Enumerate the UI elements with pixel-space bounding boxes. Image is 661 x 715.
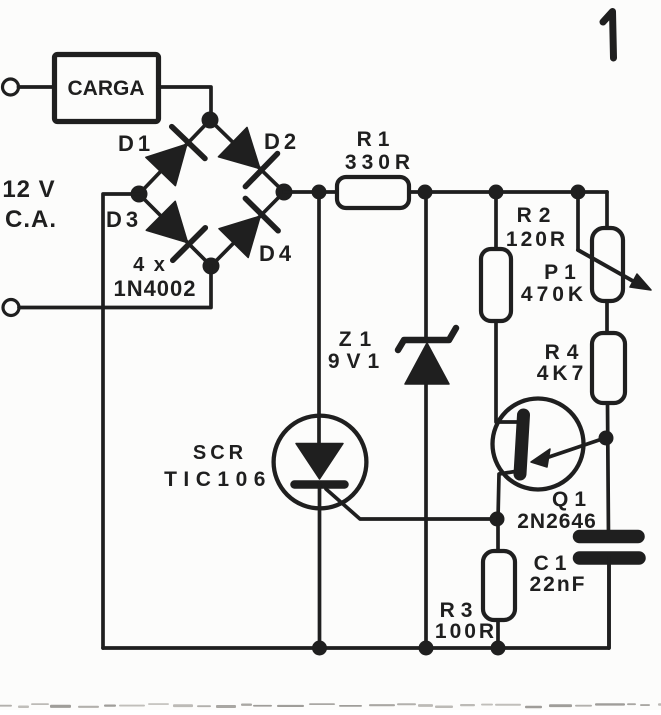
label R3 [440, 599, 479, 622]
label R1 [357, 128, 396, 151]
wire zener column top [424, 192, 428, 340]
label D4 [259, 241, 295, 266]
wire SCR anode [317, 192, 321, 444]
wire bridge edge left-top [139, 120, 210, 194]
node bridge left [131, 186, 148, 203]
diode D1 [146, 127, 205, 186]
svg-text:P1: P1 [544, 261, 582, 284]
resistor R3 body [483, 551, 515, 620]
wire right rail top corner [605, 192, 609, 228]
label Q1 [552, 488, 592, 511]
potentiometer P1 body [592, 228, 623, 301]
label C.A. [5, 206, 57, 233]
label TIC106 [164, 468, 272, 491]
label 9V1 [328, 350, 386, 373]
svg-text:TIC106: TIC106 [164, 468, 272, 491]
svg-text:4K7: 4K7 [537, 362, 588, 385]
label 120R [506, 228, 568, 251]
svg-text:D1: D1 [118, 131, 154, 156]
node bridge bottom [203, 258, 220, 275]
wire terminal2 to bridge bottom [19, 266, 211, 308]
svg-text:CARGA: CARGA [68, 77, 145, 100]
P1 arrowhead [630, 274, 651, 290]
load box CARGA [55, 55, 159, 122]
capacitor C1 top plate [580, 530, 639, 544]
capacitor C1 bottom plate [580, 551, 640, 565]
svg-text:120R: 120R [506, 228, 568, 251]
svg-text:C.A.: C.A. [5, 206, 57, 233]
label P1 [544, 261, 582, 284]
zener Z1 bar [398, 328, 456, 350]
svg-text:R1: R1 [357, 128, 396, 151]
wire CARGA to bridge top node [158, 87, 211, 120]
diode D2 [218, 127, 277, 186]
wire P1 to R4 [605, 301, 609, 333]
node P1 wiper on rail [571, 185, 586, 200]
diode D3 [146, 201, 205, 260]
label C1 [534, 552, 573, 575]
wire base1 to R3 [496, 519, 500, 551]
svg-text:22nF: 22nF [529, 573, 586, 596]
label 22nF [529, 573, 586, 596]
svg-text:2N2646: 2N2646 [517, 510, 597, 533]
SCR U1 circle TIC106 [274, 416, 367, 509]
wire bridge edge left-bottom [139, 194, 211, 266]
svg-text:R2: R2 [517, 204, 558, 227]
wire SCR cathode to bottom rail [318, 485, 322, 649]
node gate/base1 junction [490, 512, 505, 527]
svg-text:Z1: Z1 [339, 328, 380, 351]
terminal input 1 (12V C.A.) [3, 79, 19, 95]
wire bridge edge bottom-right [211, 192, 284, 266]
svg-text:R3: R3 [440, 599, 479, 622]
SCR triangle [296, 444, 343, 480]
Q1 base bar [520, 415, 524, 474]
svg-text:470K: 470K [521, 283, 587, 306]
node R2 on rail [489, 185, 504, 200]
node zener on bottom rail [419, 641, 434, 656]
label R2 [517, 204, 558, 227]
label D3 [106, 207, 142, 232]
wire R2 to Q1 base2 [496, 321, 517, 422]
svg-text:9V1: 9V1 [328, 350, 386, 373]
wire positive rail [284, 190, 607, 194]
resistor R1 body [337, 177, 409, 208]
wire P1 wiper [576, 192, 580, 250]
label 4K7 [537, 362, 588, 385]
diode D4 [219, 198, 278, 257]
svg-text:D2: D2 [264, 129, 300, 154]
svg-text:12 V: 12 V [2, 176, 55, 203]
svg-text:C1: C1 [534, 552, 573, 575]
resistor R2 body [481, 249, 511, 321]
node SCR cathode on bottom rail [312, 641, 327, 656]
node SCR anode on rail [312, 185, 327, 200]
wire bridge edge top-right [210, 120, 284, 192]
label 100R [435, 620, 497, 643]
wire C1 to bottom rail [607, 558, 611, 648]
label 330R [345, 151, 415, 174]
Q1 emitter wire [543, 438, 605, 459]
node bridge top [202, 112, 219, 129]
svg-text:100R: 100R [435, 620, 497, 643]
label 470K [521, 283, 587, 306]
figure number 1 [603, 12, 614, 59]
svg-text:4 x: 4 x [133, 254, 167, 276]
node R3 on bottom rail [491, 641, 506, 656]
label D2 [264, 129, 300, 154]
node zener on rail [418, 185, 433, 200]
wire R4 to emitter node [608, 403, 609, 537]
terminal input 2 (12V C.A.) [3, 300, 19, 316]
label 12V [2, 176, 55, 203]
Q1 base1 wire [498, 471, 518, 519]
svg-text:1N4002: 1N4002 [113, 276, 196, 301]
wire bridge left node to left rail [103, 194, 139, 648]
wire bottom rail [103, 646, 608, 650]
Q1 emitter arrowhead [531, 449, 550, 467]
wire SCR gate [326, 489, 496, 519]
node bridge right [276, 184, 293, 201]
svg-text:330R: 330R [345, 151, 415, 174]
label 2N2646 [517, 510, 597, 533]
label 4x [133, 254, 167, 276]
label Z1 [339, 328, 380, 351]
node emitter junction [599, 431, 614, 446]
wire R3 to bottom rail [496, 620, 500, 648]
label D1 [118, 131, 154, 156]
svg-text:Q1: Q1 [552, 488, 592, 511]
svg-text:D4: D4 [259, 241, 295, 266]
label SCR [193, 442, 247, 464]
label R4 [545, 341, 586, 364]
wire bottom right corner [607, 558, 611, 648]
wire terminal1 to CARGA [19, 85, 55, 89]
wire zener column bottom [424, 383, 428, 648]
P1 wiper arrow line [578, 250, 640, 285]
svg-text:D3: D3 [106, 207, 142, 232]
resistor R4 body [592, 333, 625, 403]
SCR cathode bar [295, 480, 345, 489]
transistor Q1 circle 2N2646 [493, 399, 584, 490]
svg-text:R4: R4 [545, 341, 586, 364]
svg-text:SCR: SCR [193, 442, 247, 464]
wire R2 top [494, 192, 498, 249]
zener Z1 triangle [405, 343, 449, 384]
label 1N4002 [113, 276, 196, 301]
scan artifact strip (bottom) [0, 703, 661, 708]
